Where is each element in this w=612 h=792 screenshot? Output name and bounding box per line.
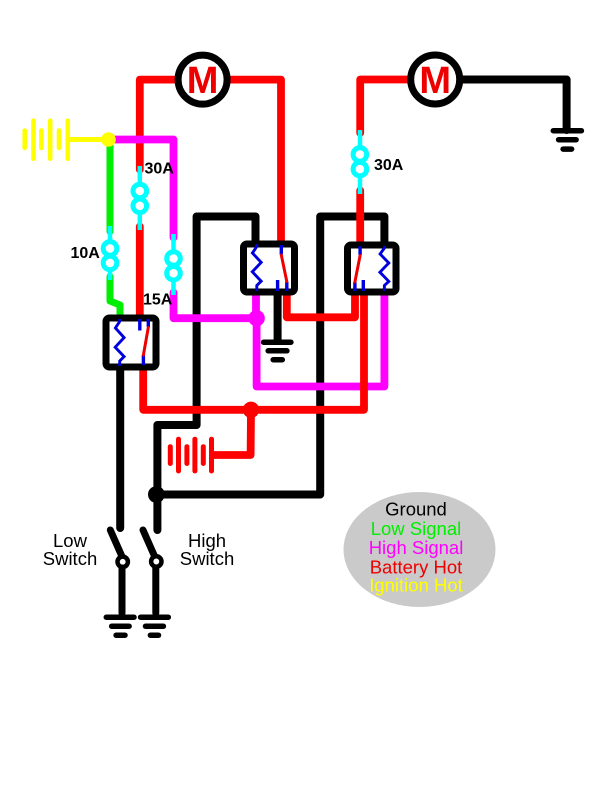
node: magenta junction: [248, 310, 264, 326]
low switch pivot circle: [118, 557, 128, 567]
wire: yellow ignition lead: [68, 137, 109, 142]
motor M1 circle: [178, 55, 227, 104]
ground below low switch: [106, 617, 134, 635]
wire: black net relay2 coil top to junction: [157, 217, 384, 495]
battery symbol (red): [170, 439, 211, 471]
ground below high switch: [141, 617, 169, 635]
wire: red relay1 switch to relay2 switch: [287, 289, 355, 317]
wire: green low signal from ignition to 10A fuse: [107, 143, 114, 232]
high switch pivot circle: [151, 556, 161, 566]
svg-text:30A: 30A: [374, 157, 404, 174]
fuse F2 30A on motor1 red wire: [133, 166, 147, 230]
svg-text:High Signal: High Signal: [369, 537, 464, 558]
relay K3 switch contacts: [140, 319, 149, 365]
wire: red motor1 left to 30A fuse: [140, 80, 178, 170]
ignition source symbol (yellow): [25, 121, 68, 159]
wire: relay3 coil to low switch: [116, 364, 124, 528]
wire: relay1 to ground: [274, 289, 282, 341]
relay K3 coil: [115, 319, 124, 366]
svg-text:M: M: [419, 60, 451, 102]
relay K2 box: [348, 245, 397, 292]
wire: red battery branch: [213, 410, 251, 455]
wire: magenta ignition junction to 15A fuse: [109, 140, 174, 238]
relay K3 box: [106, 318, 156, 367]
wire: magenta 15A fuse to junction: [174, 293, 257, 319]
svg-text:15A: 15A: [143, 291, 173, 308]
svg-text:Switch: Switch: [180, 548, 235, 569]
relay K1 blade: [281, 255, 287, 282]
node: yellow junction: [101, 132, 116, 147]
svg-text:Switch: Switch: [43, 548, 98, 569]
wire: motor2 to ground: [461, 80, 567, 131]
ground below relay1: [264, 342, 291, 360]
relay K2 switch contacts: [355, 246, 363, 291]
wire: magenta relay1 coil bottom to junction: [252, 289, 260, 318]
relay K2 coil: [380, 246, 389, 291]
node: black junction: [148, 486, 165, 503]
relay K3 blade: [143, 328, 148, 356]
svg-text:10A: 10A: [71, 245, 101, 262]
fuse F3 15A on magenta wire: [167, 234, 181, 295]
wire: green 10A fuse to relay3 coil: [110, 277, 120, 322]
low switch blade: [110, 530, 122, 557]
wire: high switch to ground: [152, 568, 159, 613]
wire: red motor1 right to relay1 switch: [226, 80, 281, 247]
wire: red motor2 left to 30A fuse: [360, 80, 410, 134]
wire: red relay3 output to relay2 contact: [143, 289, 364, 410]
relay K2 blade: [355, 256, 360, 283]
wire: red 30A fuse to relay2 switch: [356, 191, 364, 249]
relay K1 coil: [252, 244, 261, 291]
wire: black net relay1 coil top to high switch: [157, 217, 255, 531]
node: red junction: [243, 402, 259, 418]
wire: magenta junction to relay2 coil bottom: [257, 289, 385, 387]
svg-text:M: M: [187, 60, 219, 102]
relay K1 box: [244, 244, 295, 292]
wire: red 30A fuse to relay3 switch: [136, 227, 144, 322]
high switch blade: [143, 530, 155, 557]
svg-text:Low Signal: Low Signal: [371, 518, 462, 539]
fuse F4 30A on motor2 red wire: [353, 130, 367, 194]
svg-text:30A: 30A: [145, 160, 175, 177]
svg-text:Ground: Ground: [385, 499, 447, 520]
ground below motor2: [553, 131, 581, 149]
legend ellipse: [344, 492, 496, 607]
fuse F1 10A on green wire: [103, 226, 117, 280]
wire: low switch to ground: [119, 568, 126, 613]
svg-text:Ignition Hot: Ignition Hot: [369, 575, 463, 596]
motor M2 circle: [411, 55, 460, 104]
relay K1 switch contacts: [278, 245, 287, 291]
